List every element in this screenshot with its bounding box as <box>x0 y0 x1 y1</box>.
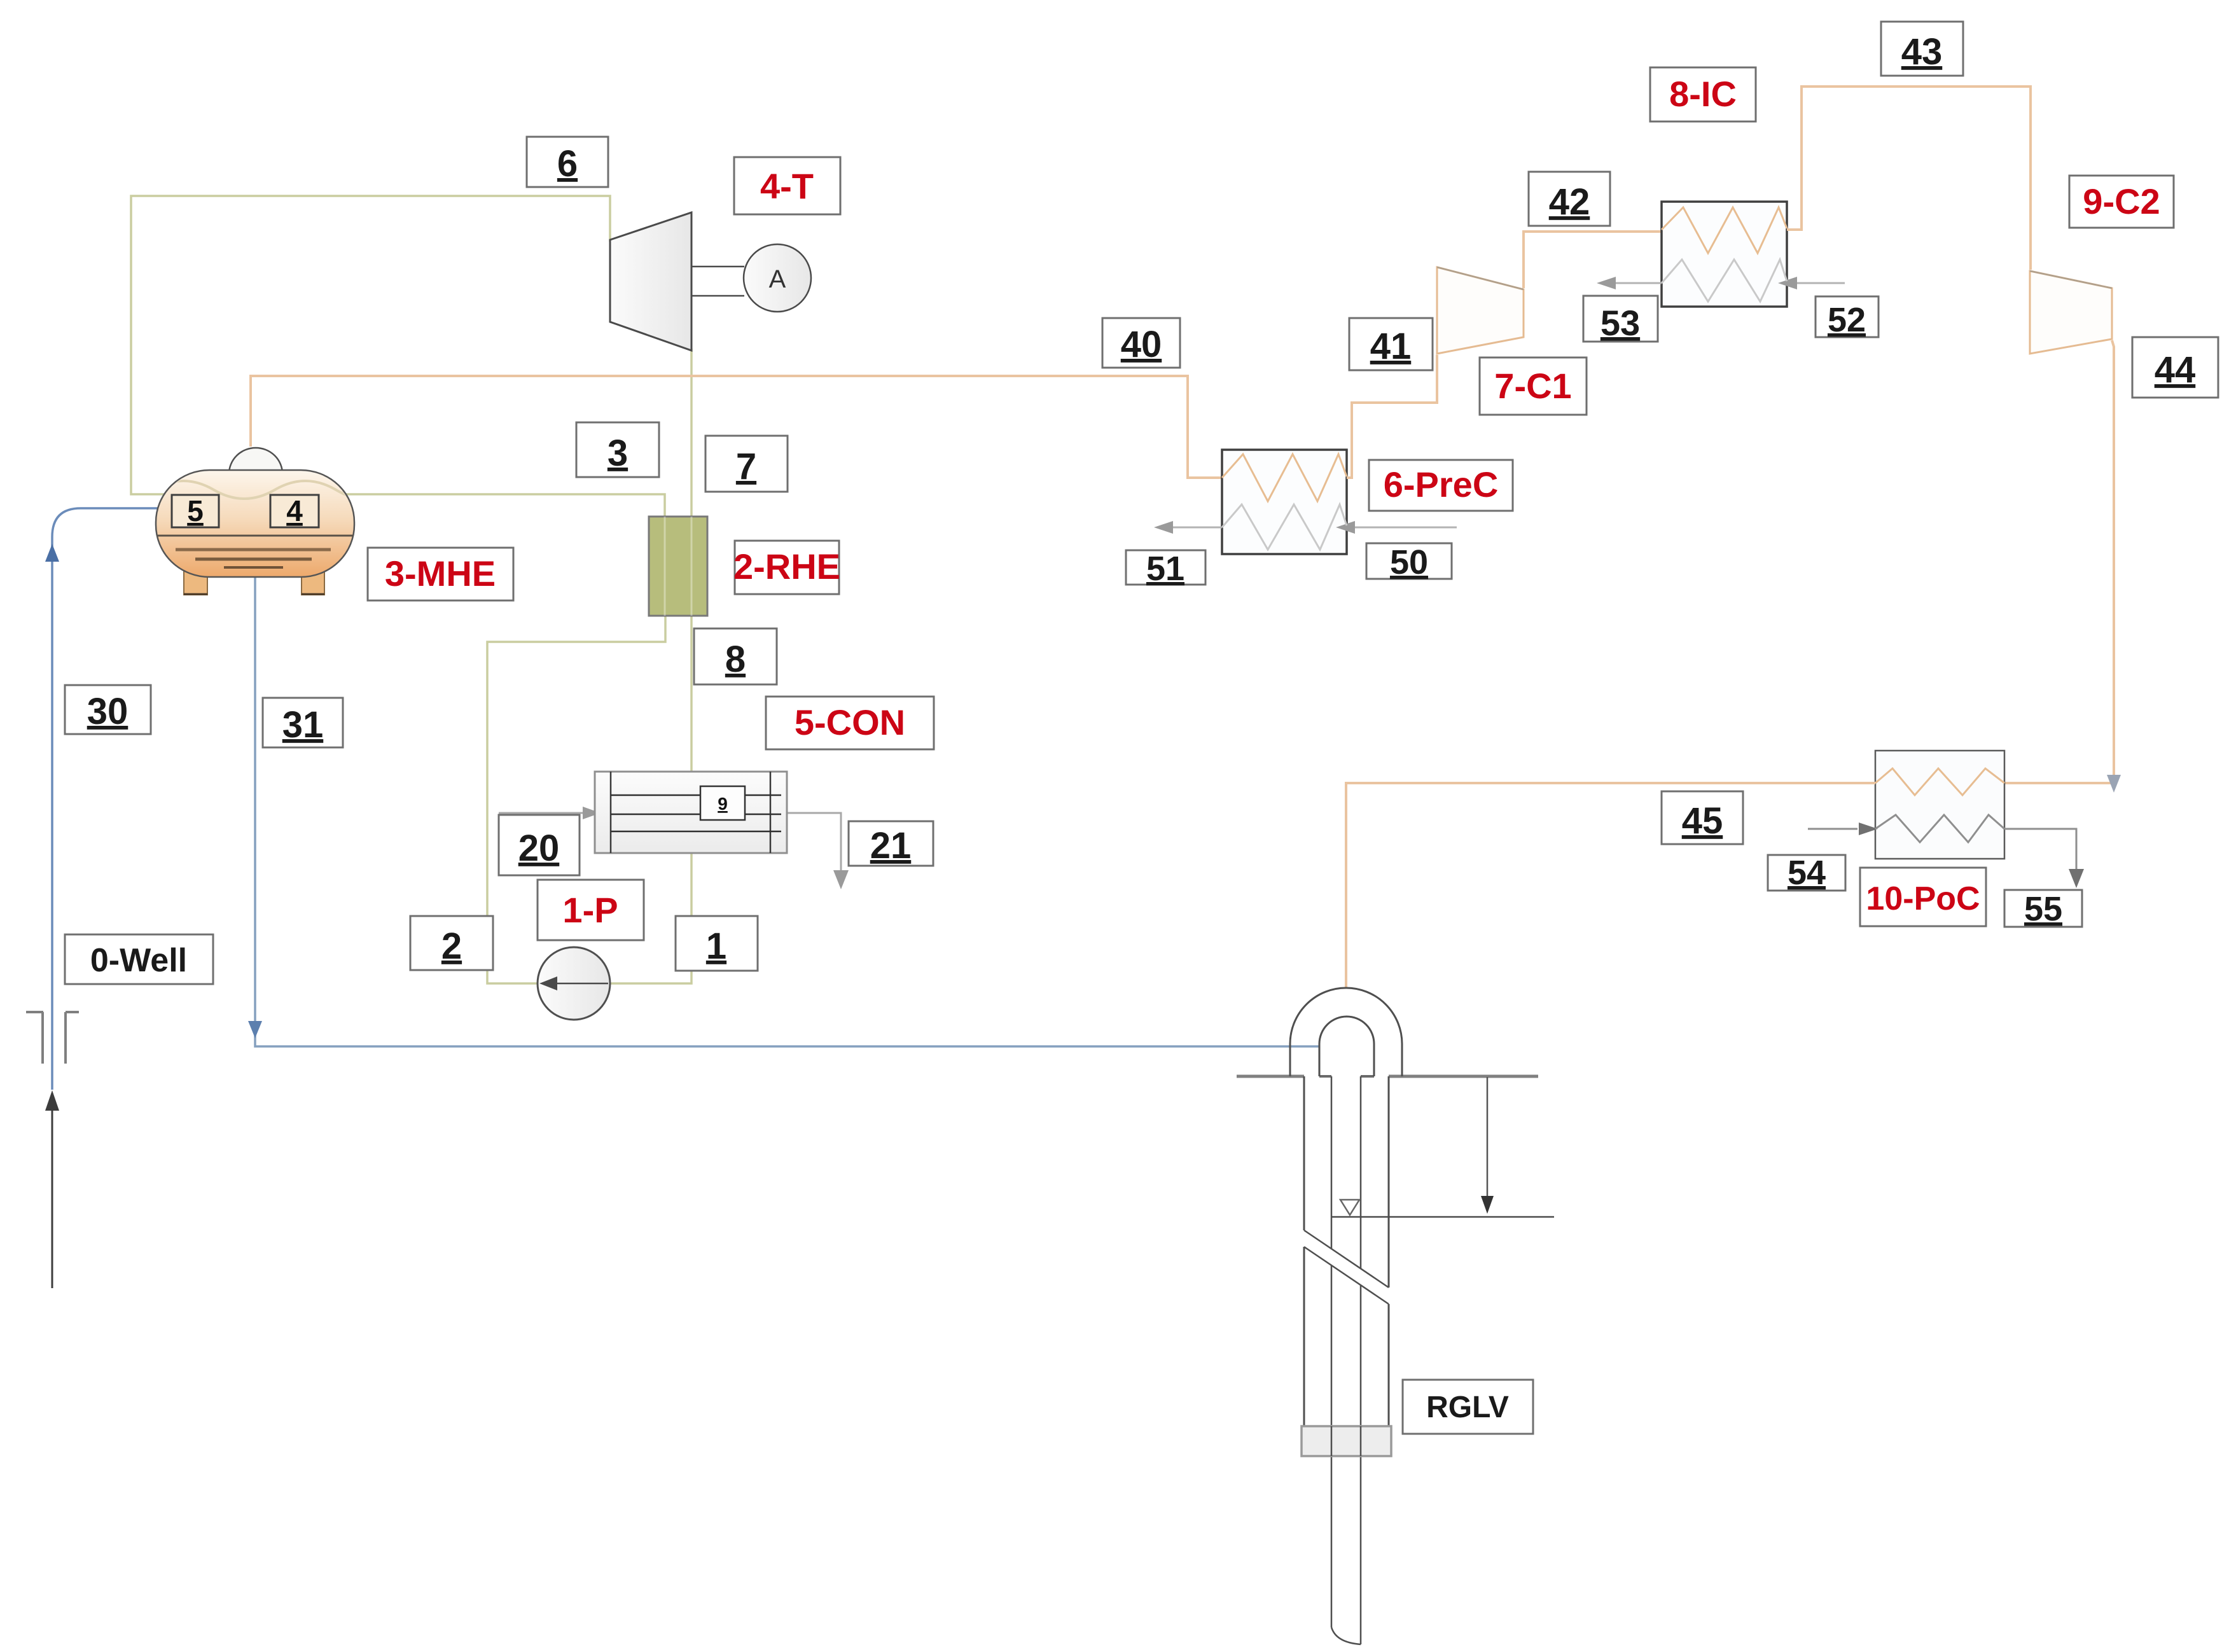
wire stream 21 cooling water out of condenser <box>787 813 841 877</box>
separator tank 3-MHE leg left <box>184 571 207 595</box>
RHE internal stream traces <box>665 517 691 616</box>
svg-text:55: 55 <box>2024 890 2062 928</box>
node label 54 <box>1768 855 1845 891</box>
wire PreC cold-side zigzag <box>1222 504 1347 550</box>
node label 3 <box>576 422 659 477</box>
node label 21 <box>849 821 933 866</box>
wellhead inner U-bend <box>1319 1017 1374 1076</box>
svg-text:1: 1 <box>706 926 726 967</box>
wellhead outer U-bend <box>1290 988 1402 1076</box>
arrowhead stream 51 left <box>1154 521 1173 534</box>
node label 50 <box>1366 543 1452 579</box>
tank liquid line 3 <box>195 558 312 561</box>
generator A <box>744 244 811 312</box>
ground line right of wellhead <box>1389 1075 1538 1078</box>
svg-text:RGLV: RGLV <box>1426 1391 1509 1424</box>
node label 52 <box>1816 296 1878 337</box>
node label 6 <box>527 137 608 187</box>
wire stream 52 cooling water into IC <box>1796 282 1845 284</box>
arrowhead stream 55 down <box>2069 869 2084 888</box>
compressor C2 top edge shading <box>2030 271 2112 288</box>
svg-text:10-PoC: 10-PoC <box>1866 880 1980 917</box>
wire stream 31 MHE brine to well annulus <box>255 576 1319 1046</box>
node label 45 <box>1662 791 1743 844</box>
separator tank 3-MHE dome <box>229 448 282 474</box>
svg-text:20: 20 <box>518 828 560 869</box>
svg-text:2-RHE: 2-RHE <box>733 546 840 587</box>
svg-text:6: 6 <box>557 143 578 184</box>
svg-text:50: 50 <box>1390 543 1428 581</box>
tubing lines through packer <box>1331 1426 1361 1456</box>
svg-text:8: 8 <box>725 639 746 680</box>
component label 5-CON <box>766 697 934 749</box>
svg-text:4: 4 <box>286 494 303 527</box>
wire IC hot-side zigzag <box>1662 207 1787 253</box>
water level line <box>1331 1216 1554 1218</box>
wire IC cold-side zigzag <box>1662 260 1787 302</box>
wire stream 44 C2 to 10-PoC <box>2004 340 2114 783</box>
tank liquid line 4 <box>224 566 283 569</box>
well break diagonal upper <box>1304 1230 1389 1288</box>
wire PreC hot-side zigzag <box>1222 454 1347 501</box>
pump internal flow line <box>547 983 608 985</box>
svg-text:41: 41 <box>1370 326 1412 367</box>
shaft turbine-generator <box>691 267 744 296</box>
arrowhead stream 30 up <box>45 544 59 562</box>
well casing right wall <box>1388 1076 1390 1426</box>
heat exchanger 2-RHE <box>649 517 707 616</box>
node label 20 <box>499 815 580 875</box>
wire stream 8 RHE to condenser <box>690 616 693 772</box>
svg-text:52: 52 <box>1828 301 1866 339</box>
well tubing left wall <box>1331 1076 1333 1627</box>
arrowhead stream 54 right <box>1859 823 1878 835</box>
component label 7-C1 <box>1480 357 1587 415</box>
arrowhead stream 21 down <box>833 870 849 889</box>
svg-text:9-C2: 9-C2 <box>2083 181 2160 221</box>
node label 51 <box>1126 550 1205 585</box>
well tubing bottom cut <box>1331 1627 1361 1644</box>
svg-text:43: 43 <box>1901 31 1943 73</box>
wire stream 2 pump to RHE <box>487 616 665 983</box>
svg-text:2: 2 <box>441 926 462 967</box>
condenser 5-CON body <box>595 772 787 853</box>
wire PoC cold-side zigzag <box>1875 815 2004 842</box>
component label 2-RHE <box>735 541 839 594</box>
wire stream 20 cooling water into condenser <box>499 812 587 814</box>
condenser left head line <box>610 772 612 853</box>
wire reservoir inflow arrow <box>52 1109 53 1288</box>
svg-text:9: 9 <box>718 794 728 814</box>
node label 42 <box>1529 172 1610 226</box>
svg-text:40: 40 <box>1121 324 1162 365</box>
svg-text:45: 45 <box>1682 800 1723 842</box>
wire stream 53 cooling water out of IC <box>1614 282 1662 284</box>
svg-text:4-T: 4-T <box>760 166 814 206</box>
arrowhead stream 53 left <box>1597 277 1616 289</box>
node label 2 <box>410 916 493 970</box>
node label 30 <box>65 685 151 734</box>
svg-text:21: 21 <box>870 825 912 866</box>
ground step right tubing <box>1361 1075 1374 1078</box>
packer <box>1302 1426 1391 1456</box>
node label 53 <box>1583 296 1658 342</box>
svg-text:0-Well: 0-Well <box>90 942 187 979</box>
svg-text:54: 54 <box>1788 854 1826 892</box>
node label 40 <box>1102 318 1180 368</box>
arrowhead stream 31 down <box>248 1021 262 1038</box>
svg-text:30: 30 <box>87 691 128 732</box>
turbine 4-T <box>610 212 691 351</box>
well mouth bracket right <box>66 1012 79 1064</box>
svg-text:5-CON: 5-CON <box>795 702 905 742</box>
component label 4-T <box>734 157 840 214</box>
well break diagonal lower <box>1304 1247 1389 1304</box>
node label 8 <box>694 628 777 684</box>
svg-text:3-MHE: 3-MHE <box>385 553 496 593</box>
node label 41 <box>1349 318 1433 370</box>
svg-text:31: 31 <box>282 704 324 746</box>
tank liquid surface line <box>157 535 353 537</box>
arrowhead reservoir inflow up <box>45 1090 59 1111</box>
tank interior wavy vapor line <box>153 481 361 499</box>
wire stream 55 cooling water out of PoC <box>2004 829 2076 875</box>
component label 8-IC <box>1650 67 1756 121</box>
svg-text:51: 51 <box>1146 550 1184 588</box>
svg-text:5: 5 <box>187 494 204 527</box>
wire stream 6 turbine-to-MHE-to-RHE (olive) <box>131 196 665 517</box>
node label 7 <box>705 436 788 492</box>
depth arrow line <box>1487 1077 1489 1198</box>
well casing left wall <box>1303 1076 1305 1426</box>
arrowhead stream 44 down <box>2107 775 2121 793</box>
svg-text:42: 42 <box>1549 181 1590 223</box>
well tubing right wall <box>1360 1076 1362 1644</box>
svg-text:8-IC: 8-IC <box>1669 74 1737 114</box>
wire stream 1 condenser to pump <box>574 850 691 983</box>
wire stream 43 IC to C2 <box>1787 87 2031 270</box>
pump 1-P <box>538 947 610 1020</box>
svg-text:6-PreC: 6-PreC <box>1384 464 1499 504</box>
svg-text:A: A <box>769 265 786 293</box>
svg-text:1-P: 1-P <box>562 890 618 930</box>
wire stream 42 C1 to 8-IC <box>1524 232 1662 288</box>
arrowhead stream 50 left <box>1336 521 1355 534</box>
svg-text:3: 3 <box>608 433 628 474</box>
node label 55 <box>2004 890 2082 927</box>
svg-text:53: 53 <box>1601 303 1640 343</box>
heat exchanger 10-PoC box <box>1875 751 2004 859</box>
node label 43 <box>1881 22 1963 76</box>
node label 0-Well <box>65 934 213 984</box>
compressor 7-C1 <box>1437 267 1524 354</box>
ground step left tubing <box>1319 1075 1331 1078</box>
well mouth bracket left <box>26 1012 43 1064</box>
tank port label 5 <box>172 495 219 527</box>
depth arrowhead down <box>1481 1196 1494 1214</box>
svg-text:44: 44 <box>2155 349 2196 391</box>
separator tank 3-MHE body <box>156 470 354 577</box>
tank liquid line 2 <box>176 548 331 552</box>
wire stream 30 well to MHE (blue) <box>52 508 159 1090</box>
node label 31 <box>263 698 343 747</box>
node label RGLV <box>1403 1380 1533 1434</box>
separator tank 3-MHE leg right <box>302 571 324 595</box>
arrowhead stream 20 right <box>583 807 601 819</box>
node label 44 <box>2132 337 2218 398</box>
svg-text:7-C1: 7-C1 <box>1494 366 1571 406</box>
component label 1-P <box>538 880 644 940</box>
ground line left of wellhead <box>1237 1075 1304 1078</box>
wire stream 40 MHE vapor line to 6-PreC (orange) <box>251 376 1222 478</box>
condenser internal label 9 <box>700 786 745 820</box>
wire stream 45 PoC to wellhead <box>1346 783 1875 988</box>
arrowhead stream 52 left <box>1778 277 1797 289</box>
wire stream 7 turbine exhaust to RHE <box>690 349 693 517</box>
heat exchanger 6-PreC box <box>1222 450 1347 554</box>
wire stream 41 PreC to C1 <box>1347 355 1437 478</box>
wire PoC hot-side zigzag <box>1875 768 2004 795</box>
component label 9-C2 <box>2069 176 2174 228</box>
component label 10-PoC <box>1860 868 1986 926</box>
water level symbol <box>1340 1200 1359 1215</box>
component label 3-MHE <box>368 548 513 600</box>
wire stream 50 cooling water into PreC <box>1354 527 1457 529</box>
tank port label 4 <box>270 495 319 527</box>
compressor 9-C2 <box>2030 271 2112 354</box>
node label 1 <box>676 916 758 971</box>
wire stream 54 cooling water into PoC <box>1808 828 1857 830</box>
svg-text:7: 7 <box>736 446 756 487</box>
condenser right head line <box>770 772 772 853</box>
wire stream 51 cooling water out of PreC <box>1169 527 1222 529</box>
compressor C1 top edge shading <box>1437 267 1524 289</box>
component label 6-PreC <box>1369 460 1513 511</box>
heat exchanger 8-IC box <box>1662 202 1787 307</box>
pump arrowhead left <box>539 976 557 990</box>
condenser tube lines <box>611 795 781 831</box>
